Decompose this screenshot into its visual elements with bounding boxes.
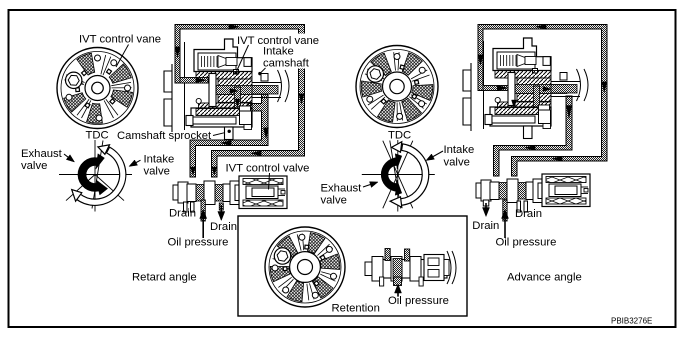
svg-text:TDC: TDC (86, 130, 109, 142)
svg-text:valve: valve (444, 157, 470, 169)
svg-text:camshaft: camshaft (263, 58, 310, 70)
svg-text:PBIB3276E: PBIB3276E (611, 317, 652, 326)
svg-text:Camshaft sprocket: Camshaft sprocket (117, 130, 212, 142)
svg-text:Advance angle: Advance angle (507, 272, 582, 284)
svg-text:Intake: Intake (144, 154, 175, 166)
svg-text:Drain: Drain (472, 220, 499, 232)
svg-text:IVT control vane: IVT control vane (79, 34, 161, 46)
svg-text:Exhaust: Exhaust (21, 148, 63, 160)
svg-text:Drain: Drain (515, 208, 542, 220)
svg-text:Intake: Intake (263, 46, 294, 58)
svg-text:valve: valve (21, 160, 47, 172)
svg-text:Intake: Intake (444, 144, 475, 156)
svg-text:Oil pressure: Oil pressure (388, 295, 449, 307)
svg-text:valve: valve (144, 166, 170, 178)
svg-text:IVT control valve: IVT control valve (226, 162, 310, 174)
svg-text:Oil pressure: Oil pressure (168, 237, 229, 249)
svg-text:valve: valve (321, 194, 347, 206)
svg-text:Drain: Drain (169, 208, 196, 220)
svg-text:Retard angle: Retard angle (132, 272, 197, 284)
svg-text:Retention: Retention (332, 303, 380, 315)
svg-text:TDC: TDC (388, 130, 411, 142)
svg-text:Oil pressure: Oil pressure (496, 237, 557, 249)
svg-text:Drain: Drain (210, 221, 237, 233)
svg-text:Exhaust: Exhaust (321, 182, 363, 194)
